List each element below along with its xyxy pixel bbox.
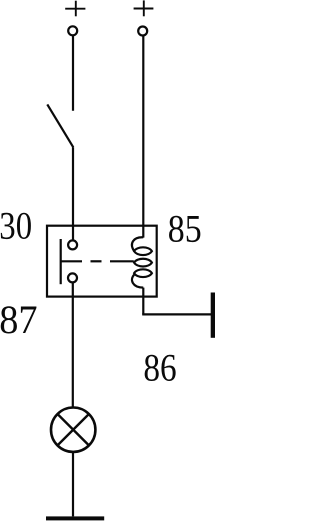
wire switch to relay terminal 30 bbox=[72, 147, 74, 240]
relay armature bar bbox=[60, 239, 62, 284]
wire lamp to ground bbox=[72, 452, 74, 517]
plus sign right supply bbox=[134, 0, 154, 16]
svg-text:86: 86 bbox=[143, 345, 176, 389]
svg-text:87: 87 bbox=[0, 297, 37, 342]
terminal circle left supply bbox=[68, 26, 77, 35]
switch S1 lever bbox=[47, 104, 73, 147]
relay K1 body bbox=[47, 226, 157, 297]
wire corner to terminal 86 bar bbox=[142, 313, 211, 315]
relay contact lower circle bbox=[68, 273, 77, 282]
ground bar bbox=[46, 516, 104, 520]
wire relay contact 87 down to lamp bbox=[72, 282, 74, 407]
terminal circle right supply bbox=[138, 27, 147, 36]
relay contact upper circle bbox=[68, 240, 77, 249]
relay linkage dashed line bbox=[61, 260, 134, 262]
relay coil L1 bbox=[132, 237, 152, 287]
lamp E1 cross bbox=[57, 414, 89, 446]
wire left supply to switch bbox=[72, 36, 74, 111]
plus sign left supply bbox=[65, 1, 85, 17]
wire right supply to relay coil terminal 85 bbox=[142, 36, 144, 238]
svg-text:85: 85 bbox=[168, 206, 202, 250]
lamp E1 circle bbox=[51, 408, 95, 452]
wire relay coil to corner bbox=[142, 288, 144, 315]
terminal 86 bar bbox=[211, 293, 216, 338]
svg-text:30: 30 bbox=[0, 203, 32, 247]
